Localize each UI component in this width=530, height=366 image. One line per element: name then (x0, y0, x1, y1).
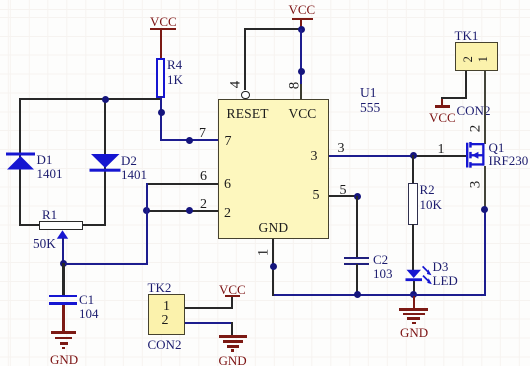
node on pin 1 wire (270, 263, 277, 270)
wire wiper down (62, 238, 64, 264)
pin label 5 (340, 184, 347, 198)
node junction on pin 2 wire (186, 207, 193, 214)
wire top rail (D1/D2 to R4 bottom) (19, 98, 162, 100)
wire R2 bottom stem (412, 224, 414, 271)
wire left vertical through D1 (19, 98, 21, 226)
pin label 6 (200, 170, 207, 184)
op-amp U1 555 body (218, 99, 329, 239)
label CON2 (TK2) (148, 338, 182, 351)
wire C1 stem top (62, 263, 64, 295)
ground (right) (399, 308, 428, 311)
pin number 3 inside (311, 150, 318, 164)
ground (below C1) (51, 331, 76, 334)
resistor R2 (408, 183, 418, 225)
power VCC (above pin 8) (289, 3, 316, 16)
pin label 8 (rotated) (287, 81, 302, 89)
potentiometer R1 (39, 221, 83, 231)
wire R1 left stub (19, 224, 40, 226)
pin number 7 inside (225, 135, 232, 149)
pin label 3 (Q1 source, rotated) (468, 180, 483, 188)
pin label 3 (338, 142, 345, 156)
wire R1 right stub (82, 224, 106, 226)
label CON2 (TK1) (457, 104, 491, 117)
pin number 6 inside (224, 178, 231, 192)
wire R2 top stem (412, 155, 414, 184)
wire node to Q1 gate (413, 155, 466, 157)
wire bottom rail (272, 294, 485, 296)
node junction D2/top rail (102, 96, 109, 103)
node junction pin3/R2 (410, 152, 417, 159)
wire D3 to rail (413, 281, 415, 295)
wire TK2 pin1 to VCC (185, 307, 233, 309)
wire C2 top stem (356, 196, 358, 257)
connector TK1 (455, 29, 479, 42)
power VCC (above R4) (150, 15, 177, 28)
ground (TK2) (219, 335, 247, 338)
node wiper junction (60, 260, 67, 267)
pin number 1 of TK1 (rotated) (477, 56, 490, 62)
pin number 2 of TK1 (rotated) (462, 56, 475, 62)
label 555 (360, 101, 380, 115)
node junction pin5/C2 (354, 193, 361, 200)
node junction on pin 7 wire (186, 137, 193, 144)
pin label 4 (rotated) (228, 81, 243, 89)
wire pins 6/2 vertical to wiper (146, 183, 148, 265)
pin label 1 (rotated) (256, 248, 271, 256)
wire C1 to GND (62, 305, 64, 332)
pin label 2 (200, 198, 207, 212)
wire TK1 pin1 to Q1 drain (484, 71, 486, 144)
capacitor C2 (344, 257, 369, 259)
wire R4 bottom to pin 7 (160, 96, 162, 141)
label U1 (360, 86, 377, 100)
power VCC (TK2) (225, 295, 240, 298)
node on source wire (481, 206, 488, 213)
pin label 7 (199, 127, 206, 141)
wire pin 1 vertical (272, 239, 274, 296)
pin label 2 (Q1 drain, rotated) (468, 125, 483, 133)
wire pin 4 top horizontal (244, 28, 302, 30)
pin number 2 inside (224, 207, 231, 221)
wire wiper to pins 2/6 (62, 263, 148, 265)
wire VCC to R4 top (160, 30, 162, 59)
power VCC (TK1) (441, 99, 443, 106)
pin number 2 of TK2 (162, 314, 169, 328)
node on pin 8 wire (298, 68, 305, 75)
wire pin 2 (146, 210, 219, 212)
capacitor C1 (49, 295, 77, 298)
node junction C2/rail (354, 291, 361, 298)
wire pin 4 vertical (244, 28, 246, 90)
pin 4 inversion bubble (241, 91, 249, 99)
wire C2 bottom stem (356, 264, 358, 295)
resistor R4 (156, 58, 165, 98)
wire D2 vertical (104, 98, 106, 226)
wire TK2 pin2 to GND (185, 322, 233, 324)
wire GND stem (right) (413, 296, 415, 309)
pin label 1 (Q1 gate) (438, 143, 445, 157)
pin number 5 inside (313, 189, 320, 203)
wire pin 8 vertical (300, 29, 302, 85)
wire pin 5 (329, 195, 358, 197)
pin number 1 of TK2 (163, 300, 170, 314)
wire pin 3 to node (329, 155, 414, 157)
node junction VCC/pin4 (298, 26, 305, 33)
node junction D3/rail (410, 291, 417, 298)
node junction below R4 (158, 109, 165, 116)
wire pin 6 (147, 183, 219, 185)
wire TK1 pin2 to VCC (465, 71, 467, 99)
node junction pin2/vertical (143, 207, 150, 214)
connector TK2 (148, 281, 172, 294)
wire Q1 source down (484, 166, 486, 210)
